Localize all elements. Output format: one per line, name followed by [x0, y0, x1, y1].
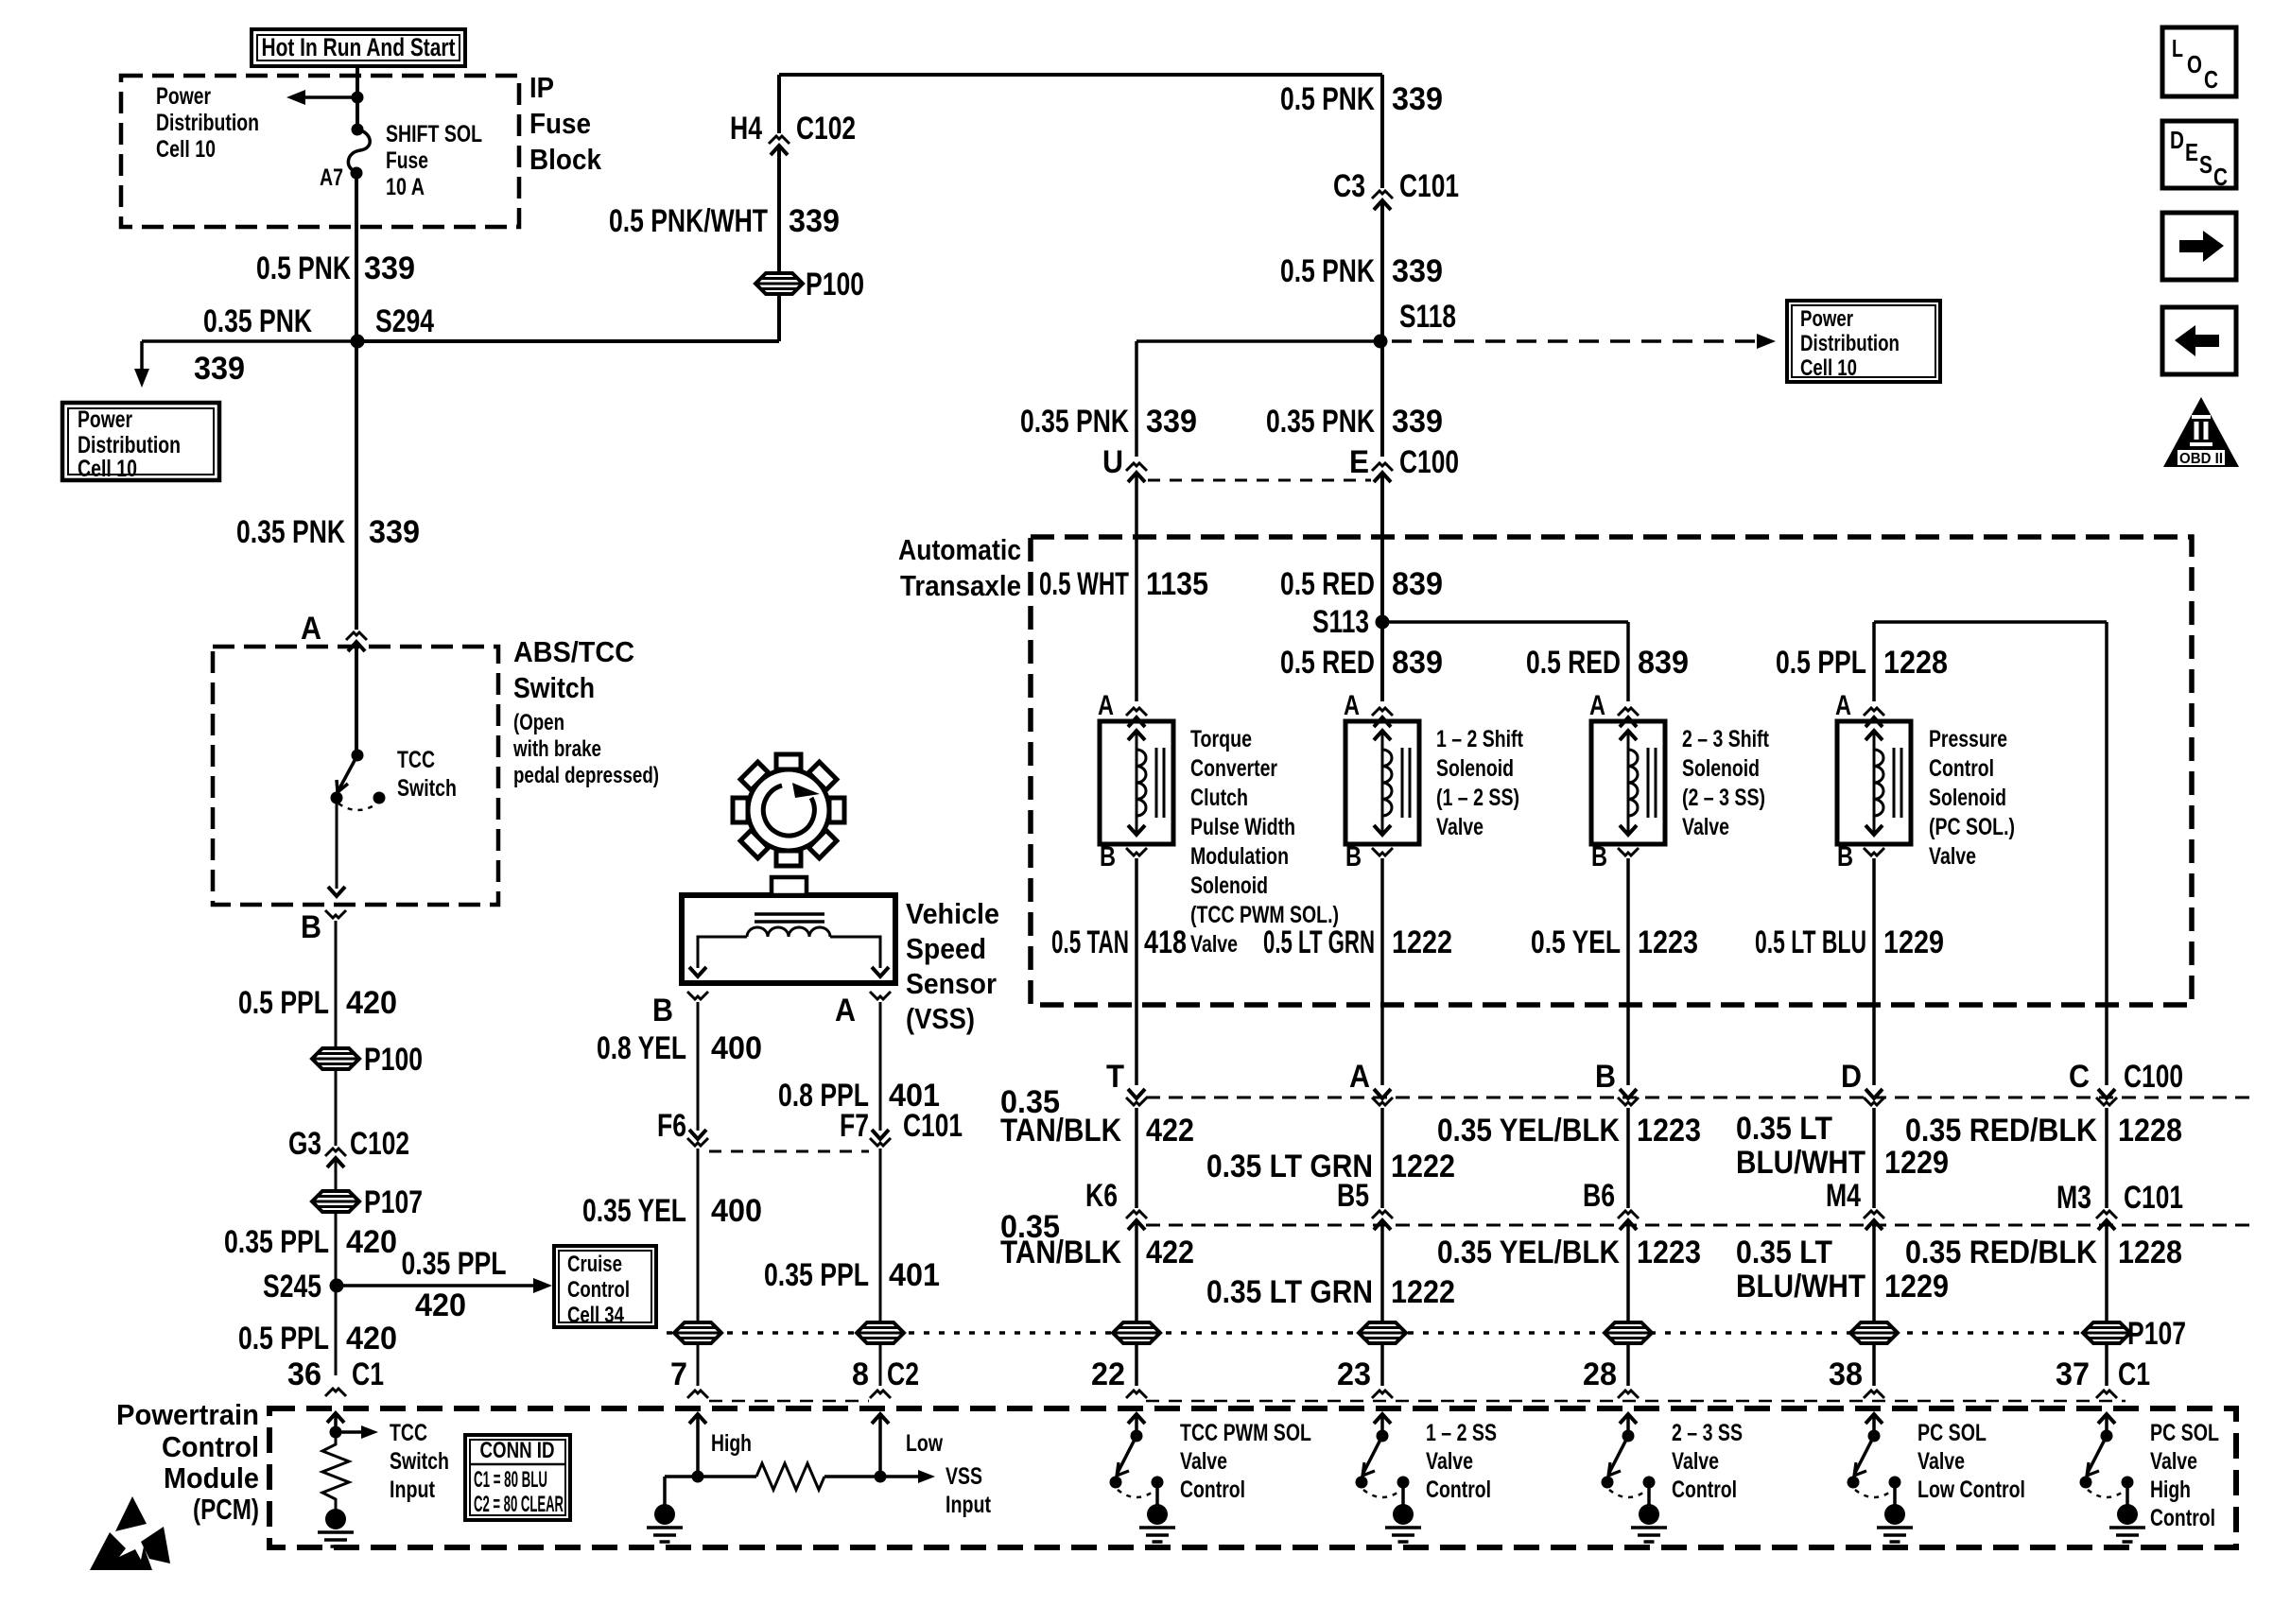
svg-text:0.35 RED/BLK: 0.35 RED/BLK [1905, 1113, 2097, 1149]
svg-text:Transaxle: Transaxle [900, 569, 1021, 602]
svg-text:TCC: TCC [397, 747, 435, 773]
svg-text:23: 23 [1337, 1356, 1371, 1392]
svg-text:Power: Power [156, 83, 211, 110]
svg-text:E: E [1349, 444, 1369, 480]
svg-text:C100: C100 [2124, 1059, 2183, 1095]
svg-text:Clutch: Clutch [1190, 785, 1248, 811]
svg-text:401: 401 [889, 1257, 940, 1293]
svg-text:PC SOL: PC SOL [1917, 1420, 1987, 1446]
svg-text:Fuse: Fuse [529, 107, 591, 140]
svg-text:0.35 YEL: 0.35 YEL [582, 1193, 686, 1229]
svg-text:C2: C2 [887, 1356, 919, 1392]
svg-text:0.5 LT BLU: 0.5 LT BLU [1755, 924, 1866, 960]
svg-text:C101: C101 [903, 1108, 963, 1144]
svg-text:1 – 2 Shift: 1 – 2 Shift [1436, 726, 1524, 752]
svg-text:0.35 PNK: 0.35 PNK [236, 514, 345, 550]
svg-text:A: A [1344, 690, 1360, 721]
svg-text:1222: 1222 [1392, 924, 1452, 960]
svg-text:Valve: Valve [1672, 1448, 1719, 1475]
svg-text:1222: 1222 [1391, 1274, 1455, 1310]
svg-text:Block: Block [529, 143, 602, 176]
svg-text:Valve: Valve [2150, 1448, 2197, 1475]
svg-text:28: 28 [1583, 1356, 1617, 1392]
svg-text:Sensor: Sensor [906, 967, 997, 1000]
svg-text:A: A [1589, 690, 1605, 721]
svg-text:0.35 PPL: 0.35 PPL [764, 1257, 869, 1293]
svg-text:420: 420 [346, 1321, 397, 1356]
svg-text:B: B [1345, 841, 1362, 872]
svg-text:Power: Power [78, 406, 132, 433]
svg-text:0.5 YEL: 0.5 YEL [1531, 924, 1621, 960]
svg-text:B: B [652, 993, 673, 1028]
svg-text:Fuse: Fuse [386, 147, 428, 174]
svg-text:Valve: Valve [1682, 814, 1729, 840]
svg-text:A: A [1098, 690, 1114, 721]
svg-text:Pulse Width: Pulse Width [1190, 814, 1295, 840]
svg-text:Switch: Switch [513, 671, 595, 704]
svg-text:CONN ID: CONN ID [480, 1438, 555, 1463]
svg-text:D: D [1841, 1059, 1862, 1095]
svg-text:7: 7 [670, 1356, 687, 1392]
svg-text:Vehicle: Vehicle [906, 897, 999, 930]
svg-text:TCC PWM SOL: TCC PWM SOL [1180, 1420, 1311, 1446]
svg-text:8: 8 [852, 1356, 869, 1392]
svg-text:T: T [1106, 1059, 1124, 1095]
svg-text:B: B [1100, 841, 1116, 872]
svg-text:C100: C100 [1399, 444, 1459, 480]
svg-text:38: 38 [1829, 1356, 1863, 1392]
svg-text:Cruise: Cruise [567, 1252, 622, 1277]
svg-text:Module: Module [164, 1461, 259, 1494]
svg-text:C102: C102 [350, 1126, 409, 1162]
svg-text:Powertrain: Powertrain [116, 1398, 259, 1431]
svg-text:K6: K6 [1085, 1178, 1118, 1214]
svg-text:1229: 1229 [1884, 1145, 1949, 1181]
svg-text:C102: C102 [796, 111, 856, 147]
svg-text:339: 339 [194, 351, 245, 387]
svg-text:839: 839 [1392, 566, 1443, 602]
svg-text:Cell 10: Cell 10 [156, 136, 216, 163]
svg-text:C: C [2204, 65, 2218, 94]
svg-text:422: 422 [1146, 1235, 1194, 1270]
svg-text:1223: 1223 [1637, 1235, 1701, 1270]
svg-text:U: U [1102, 444, 1123, 480]
svg-text:A7: A7 [320, 164, 343, 191]
svg-text:Switch: Switch [390, 1448, 449, 1475]
svg-text:1228: 1228 [1883, 645, 1948, 681]
svg-text:420: 420 [415, 1287, 466, 1323]
svg-text:Modulation: Modulation [1190, 843, 1289, 870]
svg-text:(PC SOL.): (PC SOL.) [1929, 814, 2015, 840]
svg-text:22: 22 [1091, 1356, 1125, 1392]
svg-text:400: 400 [711, 1030, 762, 1066]
svg-text:S: S [2199, 150, 2212, 179]
svg-text:P100: P100 [806, 267, 864, 302]
svg-text:Pressure: Pressure [1929, 726, 2007, 752]
svg-text:Control: Control [1180, 1477, 1245, 1503]
svg-text:339: 339 [364, 251, 415, 286]
svg-text:C: C [2213, 163, 2228, 191]
svg-text:P107: P107 [2127, 1316, 2186, 1352]
svg-text:339: 339 [1392, 81, 1443, 117]
svg-text:0.35 LT: 0.35 LT [1736, 1111, 1832, 1147]
svg-text:0.35 YEL/BLK: 0.35 YEL/BLK [1437, 1113, 1620, 1149]
svg-text:839: 839 [1392, 645, 1443, 681]
svg-text:Valve: Valve [1917, 1448, 1965, 1475]
svg-text:0.5 PNK: 0.5 PNK [1280, 81, 1375, 117]
svg-text:Distribution: Distribution [1800, 331, 1900, 356]
svg-text:Valve: Valve [1180, 1448, 1227, 1475]
svg-text:0.5 PNK/WHT: 0.5 PNK/WHT [609, 203, 768, 239]
svg-text:S294: S294 [375, 303, 434, 339]
svg-text:Converter: Converter [1190, 755, 1277, 782]
svg-text:Control: Control [2150, 1505, 2215, 1531]
svg-text:Valve: Valve [1436, 814, 1484, 840]
svg-text:0.5 TAN: 0.5 TAN [1051, 924, 1129, 960]
svg-text:Cell 10: Cell 10 [1800, 355, 1857, 381]
svg-text:H4: H4 [730, 111, 762, 147]
svg-text:Power: Power [1800, 306, 1853, 332]
svg-text:C2 = 80 CLEAR: C2 = 80 CLEAR [474, 1492, 564, 1517]
svg-text:(VSS): (VSS) [906, 1002, 975, 1035]
svg-text:Input: Input [946, 1492, 992, 1518]
svg-text:B: B [1595, 1059, 1616, 1095]
svg-text:0.35 LT GRN: 0.35 LT GRN [1206, 1274, 1373, 1310]
svg-text:C1: C1 [2118, 1356, 2150, 1392]
svg-text:(Open: (Open [513, 710, 564, 735]
svg-text:Low Control: Low Control [1917, 1477, 2025, 1503]
svg-text:Valve: Valve [1929, 843, 1976, 870]
svg-text:1229: 1229 [1884, 1269, 1949, 1304]
svg-text:2 – 3 Shift: 2 – 3 Shift [1682, 726, 1770, 752]
svg-text:0.5 RED: 0.5 RED [1280, 645, 1375, 681]
svg-text:1229: 1229 [1883, 924, 1944, 960]
svg-text:420: 420 [346, 985, 397, 1021]
svg-text:VSS: VSS [946, 1463, 982, 1490]
svg-text:TAN/BLK: TAN/BLK [1000, 1235, 1121, 1270]
svg-text:Input: Input [390, 1477, 436, 1503]
svg-text:C1 = 80 BLU: C1 = 80 BLU [474, 1467, 547, 1493]
svg-text:0.35 PNK: 0.35 PNK [1266, 404, 1375, 440]
svg-text:P107: P107 [364, 1184, 423, 1220]
svg-text:TCC: TCC [390, 1420, 427, 1446]
svg-text:S118: S118 [1399, 299, 1456, 335]
svg-text:A: A [301, 611, 321, 647]
svg-text:0.35 PPL: 0.35 PPL [224, 1224, 329, 1260]
svg-text:0.35 RED/BLK: 0.35 RED/BLK [1905, 1235, 2097, 1270]
svg-text:Low: Low [906, 1430, 943, 1457]
svg-text:M3: M3 [2056, 1180, 2091, 1216]
svg-text:(PCM): (PCM) [193, 1493, 259, 1526]
svg-text:B: B [1837, 841, 1853, 872]
svg-text:O: O [2187, 50, 2202, 78]
svg-text:C3: C3 [1333, 168, 1365, 204]
svg-text:0.5 PNK: 0.5 PNK [1280, 253, 1375, 289]
svg-text:A: A [1349, 1059, 1370, 1095]
svg-text:SHIFT SOL: SHIFT SOL [386, 121, 482, 147]
svg-text:2 – 3 SS: 2 – 3 SS [1672, 1420, 1743, 1446]
svg-text:1228: 1228 [2118, 1113, 2182, 1149]
svg-text:0.5 PPL: 0.5 PPL [238, 1321, 329, 1356]
svg-text:C101: C101 [1399, 168, 1459, 204]
svg-text:Valve: Valve [1190, 931, 1238, 958]
svg-text:High: High [2150, 1477, 2191, 1503]
svg-text:0.35 LT: 0.35 LT [1736, 1235, 1832, 1270]
svg-text:BLU/WHT: BLU/WHT [1736, 1145, 1865, 1181]
svg-text:0.5 LT GRN: 0.5 LT GRN [1263, 924, 1375, 960]
svg-text:P100: P100 [364, 1042, 423, 1078]
svg-text:B: B [301, 909, 321, 945]
svg-text:36: 36 [287, 1356, 321, 1392]
svg-text:A: A [1835, 690, 1851, 721]
svg-text:S113: S113 [1312, 604, 1369, 640]
svg-text:Switch: Switch [397, 775, 457, 802]
svg-text:G3: G3 [288, 1126, 321, 1162]
svg-text:0.5 WHT: 0.5 WHT [1039, 566, 1129, 602]
svg-text:B6: B6 [1583, 1178, 1615, 1214]
svg-text:Control: Control [1426, 1477, 1491, 1503]
svg-text:TAN/BLK: TAN/BLK [1000, 1113, 1121, 1149]
svg-text:C1: C1 [352, 1356, 384, 1392]
svg-text:10 A: 10 A [386, 174, 425, 200]
svg-text:400: 400 [711, 1193, 762, 1229]
svg-text:839: 839 [1638, 645, 1689, 681]
svg-text:Valve: Valve [1426, 1448, 1473, 1475]
svg-text:0.5 RED: 0.5 RED [1280, 566, 1375, 602]
svg-text:418: 418 [1144, 924, 1187, 960]
svg-text:Control: Control [1929, 755, 1994, 782]
svg-text:ABS/TCC: ABS/TCC [513, 635, 634, 668]
svg-text:339: 339 [369, 514, 420, 550]
svg-text:Solenoid: Solenoid [1682, 755, 1760, 782]
svg-text:BLU/WHT: BLU/WHT [1736, 1269, 1865, 1304]
svg-text:M4: M4 [1826, 1178, 1861, 1214]
svg-text:Torque: Torque [1190, 726, 1252, 752]
svg-text:Cell 34: Cell 34 [567, 1303, 624, 1328]
svg-text:Distribution: Distribution [78, 432, 181, 458]
svg-text:339: 339 [789, 203, 840, 239]
svg-text:420: 420 [346, 1224, 397, 1260]
svg-text:High: High [711, 1430, 752, 1457]
svg-text:C101: C101 [2124, 1180, 2183, 1216]
svg-text:PC SOL: PC SOL [2150, 1420, 2219, 1446]
svg-text:1222: 1222 [1391, 1149, 1455, 1184]
svg-text:Distribution: Distribution [156, 110, 259, 136]
svg-text:Control: Control [162, 1430, 259, 1463]
svg-text:Solenoid: Solenoid [1436, 755, 1514, 782]
svg-text:F7: F7 [840, 1108, 869, 1144]
svg-text:IP: IP [529, 71, 554, 104]
svg-text:1135: 1135 [1146, 566, 1208, 602]
svg-text:L: L [2172, 34, 2183, 62]
svg-text:0.35 PNK: 0.35 PNK [1020, 404, 1129, 440]
svg-text:A: A [835, 993, 856, 1028]
svg-text:422: 422 [1146, 1113, 1194, 1149]
svg-text:Automatic: Automatic [898, 533, 1021, 566]
svg-text:with brake: with brake [512, 736, 601, 762]
svg-text:Hot In Run And Start: Hot In Run And Start [262, 33, 456, 61]
svg-text:1223: 1223 [1638, 924, 1698, 960]
svg-text:C: C [2069, 1059, 2090, 1095]
svg-text:Solenoid: Solenoid [1929, 785, 2006, 811]
svg-text:(2 – 3 SS): (2 – 3 SS) [1682, 785, 1765, 811]
svg-text:0.35 PNK: 0.35 PNK [203, 303, 312, 339]
svg-text:Solenoid: Solenoid [1190, 872, 1268, 899]
svg-text:37: 37 [2056, 1356, 2090, 1392]
svg-text:E: E [2185, 138, 2198, 166]
svg-text:D: D [2170, 126, 2184, 154]
svg-text:OBD II: OBD II [2179, 451, 2223, 467]
svg-text:339: 339 [1392, 404, 1443, 440]
svg-text:0.8 YEL: 0.8 YEL [597, 1030, 686, 1066]
svg-text:(1 – 2 SS): (1 – 2 SS) [1436, 785, 1519, 811]
svg-text:Control: Control [1672, 1477, 1737, 1503]
svg-text:Control: Control [567, 1277, 630, 1303]
svg-text:0.5 PNK: 0.5 PNK [256, 251, 351, 286]
svg-text:1 – 2 SS: 1 – 2 SS [1426, 1420, 1497, 1446]
svg-text:B: B [1591, 841, 1607, 872]
svg-text:Cell 10: Cell 10 [78, 456, 137, 482]
svg-text:F6: F6 [657, 1108, 686, 1144]
svg-text:0.35 PPL: 0.35 PPL [402, 1246, 507, 1282]
svg-text:pedal depressed): pedal depressed) [513, 763, 659, 788]
svg-text:0.5 PPL: 0.5 PPL [1776, 645, 1866, 681]
svg-text:B5: B5 [1337, 1178, 1369, 1214]
svg-text:0.5 RED: 0.5 RED [1526, 645, 1621, 681]
svg-text:339: 339 [1392, 253, 1443, 289]
svg-text:1228: 1228 [2118, 1235, 2182, 1270]
svg-text:0.5 PPL: 0.5 PPL [238, 985, 329, 1021]
svg-text:0.35 YEL/BLK: 0.35 YEL/BLK [1437, 1235, 1620, 1270]
svg-text:Speed: Speed [906, 932, 986, 965]
svg-text:339: 339 [1146, 404, 1197, 440]
svg-text:S245: S245 [263, 1269, 321, 1304]
svg-text:1223: 1223 [1637, 1113, 1701, 1149]
